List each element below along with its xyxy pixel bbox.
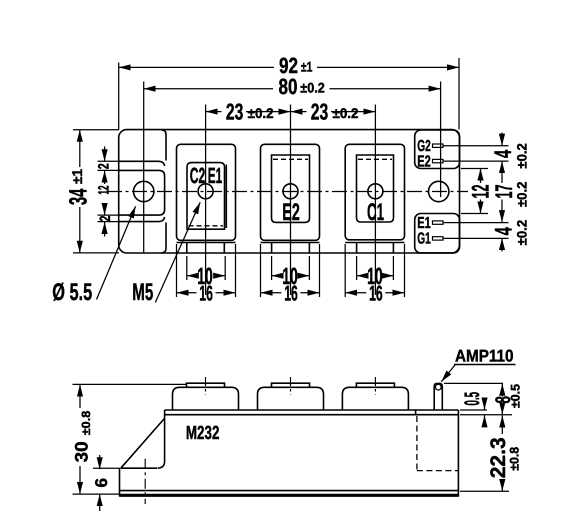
dimension 80 line right part	[330, 88, 441, 90]
svg-text:16: 16	[199, 282, 213, 306]
terminal block 1 lower contour left	[186, 243, 188, 254]
terminal well 1	[187, 163, 225, 230]
hidden cavity bottom	[417, 470, 458, 472]
svg-text:±0.2: ±0.2	[515, 182, 530, 208]
extension block3 right	[404, 244, 406, 297]
svg-text:16: 16	[369, 282, 383, 306]
svg-text:±0.2: ±0.2	[515, 220, 530, 246]
svg-text:±0.5: ±0.5	[509, 384, 523, 408]
dimension 10 block2	[272, 275, 280, 277]
svg-text:M5: M5	[132, 279, 153, 306]
terminal well 3	[357, 155, 394, 222]
lid seam edge	[165, 414, 459, 416]
extension line terminal 3 center	[374, 105, 376, 296]
bump 3 body	[342, 387, 408, 410]
svg-text:±0.2: ±0.2	[300, 80, 325, 96]
module body outline (top view)	[119, 130, 460, 253]
extension line terminal 2 center	[290, 105, 292, 296]
svg-text:16: 16	[284, 282, 298, 306]
svg-text:E1: E1	[417, 215, 431, 232]
pin pad G1	[433, 237, 444, 240]
mounting hole right	[429, 181, 449, 201]
dimension 2 lower arrow	[104, 222, 106, 237]
left tab neck contour	[119, 170, 165, 215]
dimension 16 block1	[177, 292, 197, 294]
extension lines for 2-12-2 chain	[98, 160, 120, 162]
bump 3 cap	[356, 383, 394, 387]
svg-text:23: 23	[226, 99, 244, 125]
svg-text:±0.2: ±0.2	[515, 143, 530, 169]
centerline bump3	[374, 377, 376, 395]
svg-text:2: 2	[95, 163, 112, 169]
terminal screw hole M5 no.1	[198, 184, 213, 199]
baseplate right edge	[457, 410, 459, 497]
svg-text:AMP110: AMP110	[455, 347, 514, 366]
svg-text:G1: G1	[417, 231, 431, 248]
bump 2 cap	[272, 383, 310, 387]
svg-text:E1: E1	[208, 163, 223, 188]
bump 1 cap	[187, 383, 225, 387]
extension block2 right	[319, 244, 321, 297]
terminal well 1 hidden edge	[189, 225, 224, 227]
AMP110 underline	[454, 364, 516, 366]
extension block2 left	[260, 244, 262, 297]
svg-text:34: 34	[65, 189, 93, 206]
svg-text:C2: C2	[190, 163, 206, 188]
left tab notch upper line	[119, 161, 165, 166]
extension line left mounting hole	[143, 82, 145, 254]
extension well1 right	[224, 256, 226, 280]
leader E2	[444, 160, 509, 162]
pin pad G2	[433, 144, 444, 147]
terminal well 2	[272, 155, 310, 222]
dimension 30 line	[79, 385, 81, 408]
flange top edge	[121, 467, 158, 469]
svg-text:0.5: 0.5	[461, 392, 484, 406]
leader G1	[444, 237, 509, 239]
terminal block 3 lower contour left	[356, 243, 358, 254]
dimension 16 block2	[261, 292, 282, 294]
svg-text:±1: ±1	[301, 58, 313, 74]
terminal block 3 lower contour right	[392, 243, 394, 254]
pin pad E2	[433, 159, 444, 162]
svg-text:C1: C1	[367, 199, 384, 226]
leader E1	[444, 222, 509, 224]
svg-text:±0.2: ±0.2	[248, 105, 274, 121]
extension line module left edge up	[118, 63, 120, 130]
svg-text:23: 23	[311, 99, 329, 125]
extension block3 left	[344, 244, 346, 297]
dimension 12 lower arrow	[104, 204, 106, 216]
extension baseplate bottom right	[460, 490, 509, 492]
dimension 6 lower arrow	[99, 494, 101, 511]
svg-text:±0.8: ±0.8	[508, 447, 522, 471]
extension block1 right	[235, 244, 237, 297]
baseplate top edge	[120, 490, 459, 492]
dimension 2 upper arrow	[104, 147, 106, 162]
lid end step	[415, 410, 417, 415]
terminal block 2 lower contour left	[271, 243, 273, 254]
left body edge upper hook	[162, 130, 167, 161]
terminal well 3 hidden edge	[358, 158, 392, 160]
extension line right mounting hole	[440, 82, 442, 198]
dimension 4 lower arrow right	[501, 238, 503, 251]
svg-text:6: 6	[92, 478, 111, 487]
centerline mounting hole side view	[144, 459, 146, 504]
dimension 23 second line right part	[331, 111, 375, 113]
leader line for hole 5.5	[97, 206, 136, 299]
extension module top right	[460, 409, 487, 411]
extension well2 left	[271, 256, 273, 280]
dimension 8 line	[501, 384, 503, 397]
svg-text:30: 30	[71, 441, 91, 462]
centerline bump1	[205, 377, 207, 395]
dimension 16 block3	[345, 292, 366, 294]
extension right tab lower box top	[461, 213, 488, 215]
dimension 12 right line	[480, 169, 482, 184]
terminal well 1 inner right edge	[225, 165, 227, 229]
svg-text:2: 2	[97, 216, 114, 222]
dimension 12 upper arrow	[104, 171, 106, 184]
leader line for M5	[155, 202, 200, 302]
extension pin top level	[444, 382, 503, 384]
extension line terminal 1 center	[205, 105, 207, 296]
extension 34 top	[73, 129, 119, 131]
terminal block 2 step line	[261, 242, 320, 244]
extension well2 right	[308, 256, 310, 280]
dimension 80 line left part	[144, 88, 273, 90]
left tab notch lower line	[119, 217, 165, 222]
svg-text:80: 80	[279, 74, 298, 99]
AMP110 leader	[441, 365, 455, 382]
extension 34 bottom	[73, 252, 119, 254]
extension well1 left	[186, 256, 188, 280]
svg-text:4: 4	[491, 227, 518, 236]
extension lid seam right	[460, 414, 512, 416]
AMP110 pin eye	[435, 384, 441, 390]
extension right tab upper box bottom	[461, 168, 488, 170]
pin pad E1	[433, 221, 444, 224]
svg-text:E2: E2	[282, 199, 300, 226]
AMP110 pin body	[434, 383, 442, 410]
dimension 34 line	[79, 130, 81, 167]
baseplate left edge	[119, 468, 121, 496]
terminal block 3 step line	[345, 242, 404, 244]
body chamfer slant	[121, 419, 165, 469]
centerline bump2	[290, 377, 292, 395]
dimension 23 second line left part	[291, 111, 307, 113]
terminal screw hole M5 no.2	[283, 184, 298, 199]
svg-text:M232: M232	[186, 423, 220, 444]
leader G2	[444, 145, 509, 147]
extension block1 left	[176, 244, 178, 297]
dimension 10 block3	[357, 275, 365, 277]
extension 30 top	[73, 383, 187, 385]
left body edge lower hook	[162, 223, 167, 253]
dimension 23 first line right part	[246, 111, 291, 113]
body left face	[158, 410, 165, 468]
terminal block 1 plinth	[177, 144, 236, 240]
svg-text:±1: ±1	[69, 169, 85, 184]
extension 30 bottom	[73, 493, 120, 495]
extension well3 left	[356, 256, 358, 280]
horizontal centerline of top view	[107, 191, 468, 193]
bump 2 body	[258, 387, 324, 410]
terminal block 1 step line	[177, 242, 236, 244]
body top edge	[165, 409, 459, 411]
svg-text:12: 12	[96, 186, 113, 195]
terminal block 1 lower contour right	[223, 243, 225, 254]
mounting hole left	[134, 181, 154, 201]
hidden cavity vertical	[416, 416, 418, 471]
terminal block 2 plinth	[261, 144, 320, 240]
svg-text:4: 4	[490, 149, 517, 158]
svg-text:±0.8: ±0.8	[79, 410, 93, 435]
terminal block 3 plinth	[345, 144, 404, 240]
dimension 10 block1	[187, 275, 195, 277]
right tab upper box G2 E2	[415, 130, 460, 169]
terminal screw hole M5 no.3	[368, 184, 383, 199]
right tab lower box E1 G1	[415, 214, 460, 253]
terminal block 2 lower contour right	[308, 243, 310, 254]
extension well3 right	[392, 256, 394, 280]
extension line right edge up	[458, 58, 460, 130]
dimension 17 line right	[501, 161, 503, 183]
svg-text:Ø 5.5: Ø 5.5	[52, 279, 92, 306]
baseplate bottom thick edge	[119, 494, 458, 497]
svg-text:±0.2: ±0.2	[333, 105, 359, 121]
dimension 92 line right part	[317, 66, 459, 68]
bump 1 body	[173, 387, 239, 410]
dimension 92 line left part	[119, 66, 274, 68]
extension 6 top	[93, 467, 120, 469]
dimension 6 upper arrow	[99, 455, 101, 469]
svg-text:E2: E2	[417, 153, 431, 170]
dimension 23 first line left part	[206, 111, 222, 113]
dimension 4 upper arrow right	[501, 133, 503, 146]
dimension 0.5 arrow	[484, 399, 486, 410]
dimension 22.3 line	[501, 416, 503, 435]
terminal well 2 hidden edge	[273, 158, 308, 160]
